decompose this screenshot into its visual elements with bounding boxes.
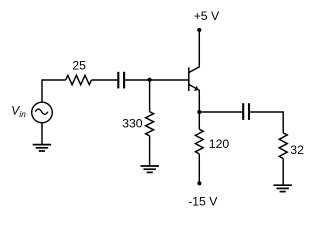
svg-text:25: 25: [72, 58, 86, 72]
svg-text:330: 330: [122, 117, 143, 131]
svg-text:32: 32: [290, 143, 304, 157]
svg-text:+5 V: +5 V: [194, 9, 220, 23]
svg-text:-15 V: -15 V: [188, 194, 218, 208]
svg-text:Vin: Vin: [11, 104, 26, 120]
svg-text:120: 120: [209, 137, 230, 151]
